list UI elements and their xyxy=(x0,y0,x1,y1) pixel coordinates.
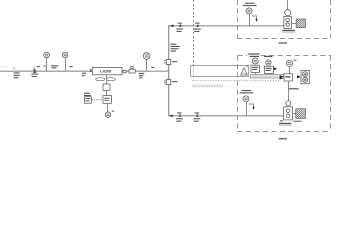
instrument bubble PSH-1 with notes xyxy=(243,3,258,26)
valve V1 NOTE C xyxy=(165,60,178,65)
instrument bubble PSH-2 with notes xyxy=(240,90,255,116)
label LV xyxy=(37,66,41,67)
wire: analyzer down to blower unit xyxy=(288,81,290,101)
fitting F1 reducer with tag xyxy=(31,67,38,77)
node: mode note text xyxy=(51,65,58,68)
package box 1 dashed border xyxy=(238,0,331,39)
instrument bubble LV-A xyxy=(44,52,50,71)
instrument bubble AE xyxy=(105,111,114,118)
duct rectangle xyxy=(191,66,249,77)
fitting cluster B2 xyxy=(193,112,200,122)
inline unit with actuator xyxy=(129,66,135,73)
roots blower symbol xyxy=(297,70,309,83)
valve V2 NOTE B xyxy=(165,80,178,85)
label B-04XX xyxy=(279,120,302,125)
fitting cluster B1 xyxy=(176,112,183,122)
wire xyxy=(106,90,108,95)
note callout N1 xyxy=(84,93,103,104)
note below box 2 xyxy=(279,138,287,139)
instrument stack AIT-1 xyxy=(251,58,260,72)
vessel saddle ellipse right xyxy=(106,78,115,81)
fitting: drain box xyxy=(103,84,110,90)
note NOTE X mid xyxy=(289,88,299,89)
instrument stack AIT-2 xyxy=(264,60,273,74)
duct thin section xyxy=(251,75,284,79)
wire: dashed signal under duct xyxy=(192,80,280,82)
arrow into analyzer line xyxy=(274,67,278,70)
wire: bottom run xyxy=(168,115,284,117)
silencer hatched 1 xyxy=(296,19,305,28)
node: source stub label xyxy=(1,65,8,68)
wire: zone boundary dashed xyxy=(193,0,195,77)
instrument bubble LV-B xyxy=(62,52,68,71)
wire: zone boundary inside duct xyxy=(193,66,195,76)
label LV right xyxy=(69,66,72,67)
node: riser note block xyxy=(171,44,180,52)
note below box 1 xyxy=(279,42,287,43)
package box 2 dashed border xyxy=(238,53,331,131)
node: faint duct label xyxy=(192,85,223,88)
node: line number label L1 xyxy=(14,67,20,78)
wire: vessel bottom stem xyxy=(106,75,108,84)
wire to silencer 2 xyxy=(293,113,296,115)
vessel saddle ellipse left xyxy=(96,78,105,81)
wire: stack stems xyxy=(255,72,257,74)
wire: top run xyxy=(168,25,284,27)
fitting: vessel inlet flange xyxy=(90,69,93,72)
arrow: top corner flow arrow xyxy=(170,25,173,28)
svg-text:L-02XX: L-02XX xyxy=(100,70,112,74)
blower unit B-04XXa xyxy=(284,0,291,29)
node: line label L3 xyxy=(139,73,144,79)
node: stack labels xyxy=(250,56,260,57)
wire: main process line xyxy=(0,70,169,72)
vessel L-02XX xyxy=(92,68,122,75)
fitting cluster T2 xyxy=(194,22,201,32)
label B-04XXa xyxy=(282,30,295,32)
analyzer box AI-2 xyxy=(280,74,293,81)
silencer hatched 2 xyxy=(296,109,306,119)
wire xyxy=(107,103,109,112)
label LV xyxy=(151,67,154,68)
wire to silencer 1 xyxy=(291,23,296,25)
analyzer box AI xyxy=(103,96,111,104)
fitting: vessel outlet nozzle xyxy=(123,70,126,73)
label tick xyxy=(43,66,45,67)
instrument bubble LIT xyxy=(143,53,150,72)
arrow: bottom corner flow arrow xyxy=(169,115,172,118)
node: line label L2 xyxy=(82,73,86,77)
instrument bubble AIT-3 xyxy=(286,60,296,74)
fitting cluster T1 xyxy=(176,22,183,32)
wire: riser xyxy=(168,25,170,116)
blower unit B-04XX xyxy=(284,101,293,120)
filter screen symbol xyxy=(241,66,248,75)
